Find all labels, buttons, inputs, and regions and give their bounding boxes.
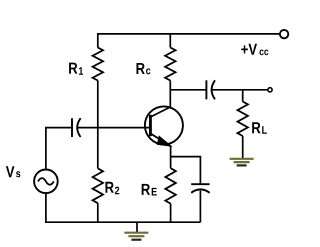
node +Vcc terminal xyxy=(280,30,288,38)
wire: RE bottom to ground rail xyxy=(170,204,172,223)
ground (main) stem xyxy=(136,222,138,232)
node output terminal xyxy=(268,88,272,92)
ground (load) xyxy=(230,159,254,166)
transistor Q1 circle xyxy=(145,106,183,144)
wire: R1 bottom through base node down to R2 top xyxy=(97,81,99,169)
wire: Rc bottom to collector, collector junction down into transistor xyxy=(169,81,171,108)
wire: base wire from C1 to transistor base xyxy=(77,127,150,129)
wire: C2 to output terminal through RL junction xyxy=(212,89,268,91)
resistor RL xyxy=(238,102,248,137)
capacitor C1 input coupling: left wire from Vs corner xyxy=(46,128,71,170)
ground (main) bars xyxy=(124,233,148,240)
capacitor CE bypass plates xyxy=(191,183,209,185)
capacitor C2 output coupling plates xyxy=(205,80,207,99)
wire: emitter down to RE top (junction at bypass branch) xyxy=(170,146,172,168)
wire: bottom ground rail from Vs to CE xyxy=(46,193,201,222)
wire: top rail from R1 top corner to +Vcc terminal xyxy=(98,34,279,48)
wire: Vcc rail drop to Rc xyxy=(169,34,171,48)
capacitor C1 plates xyxy=(71,118,73,137)
transistor Q1 base bar xyxy=(149,115,152,136)
label RE xyxy=(142,184,157,196)
wire: collector output branch to C2 xyxy=(170,89,206,91)
label Vs xyxy=(6,166,20,177)
resistor Rc xyxy=(165,48,175,81)
label Rc xyxy=(136,63,150,74)
label R1 xyxy=(69,63,83,75)
wire: CE bottom to ground rail xyxy=(199,191,201,223)
resistor R2 xyxy=(93,168,103,203)
voltage source Vs xyxy=(34,170,58,194)
transistor Q1 emitter diagonal with arrow xyxy=(150,133,170,146)
wire: R2 bottom to ground rail xyxy=(97,203,99,222)
label +Vcc xyxy=(241,44,268,56)
label RL xyxy=(252,122,267,134)
wire: RL junction drop xyxy=(242,90,244,102)
resistor RE xyxy=(165,168,175,203)
transistor Q1 collector diagonal xyxy=(150,107,170,117)
wire: RL bottom to its ground xyxy=(242,136,244,158)
resistor R1 xyxy=(93,48,103,81)
label R2 xyxy=(105,182,119,195)
wire: bypass branch from emitter junction to CE top xyxy=(171,157,201,184)
